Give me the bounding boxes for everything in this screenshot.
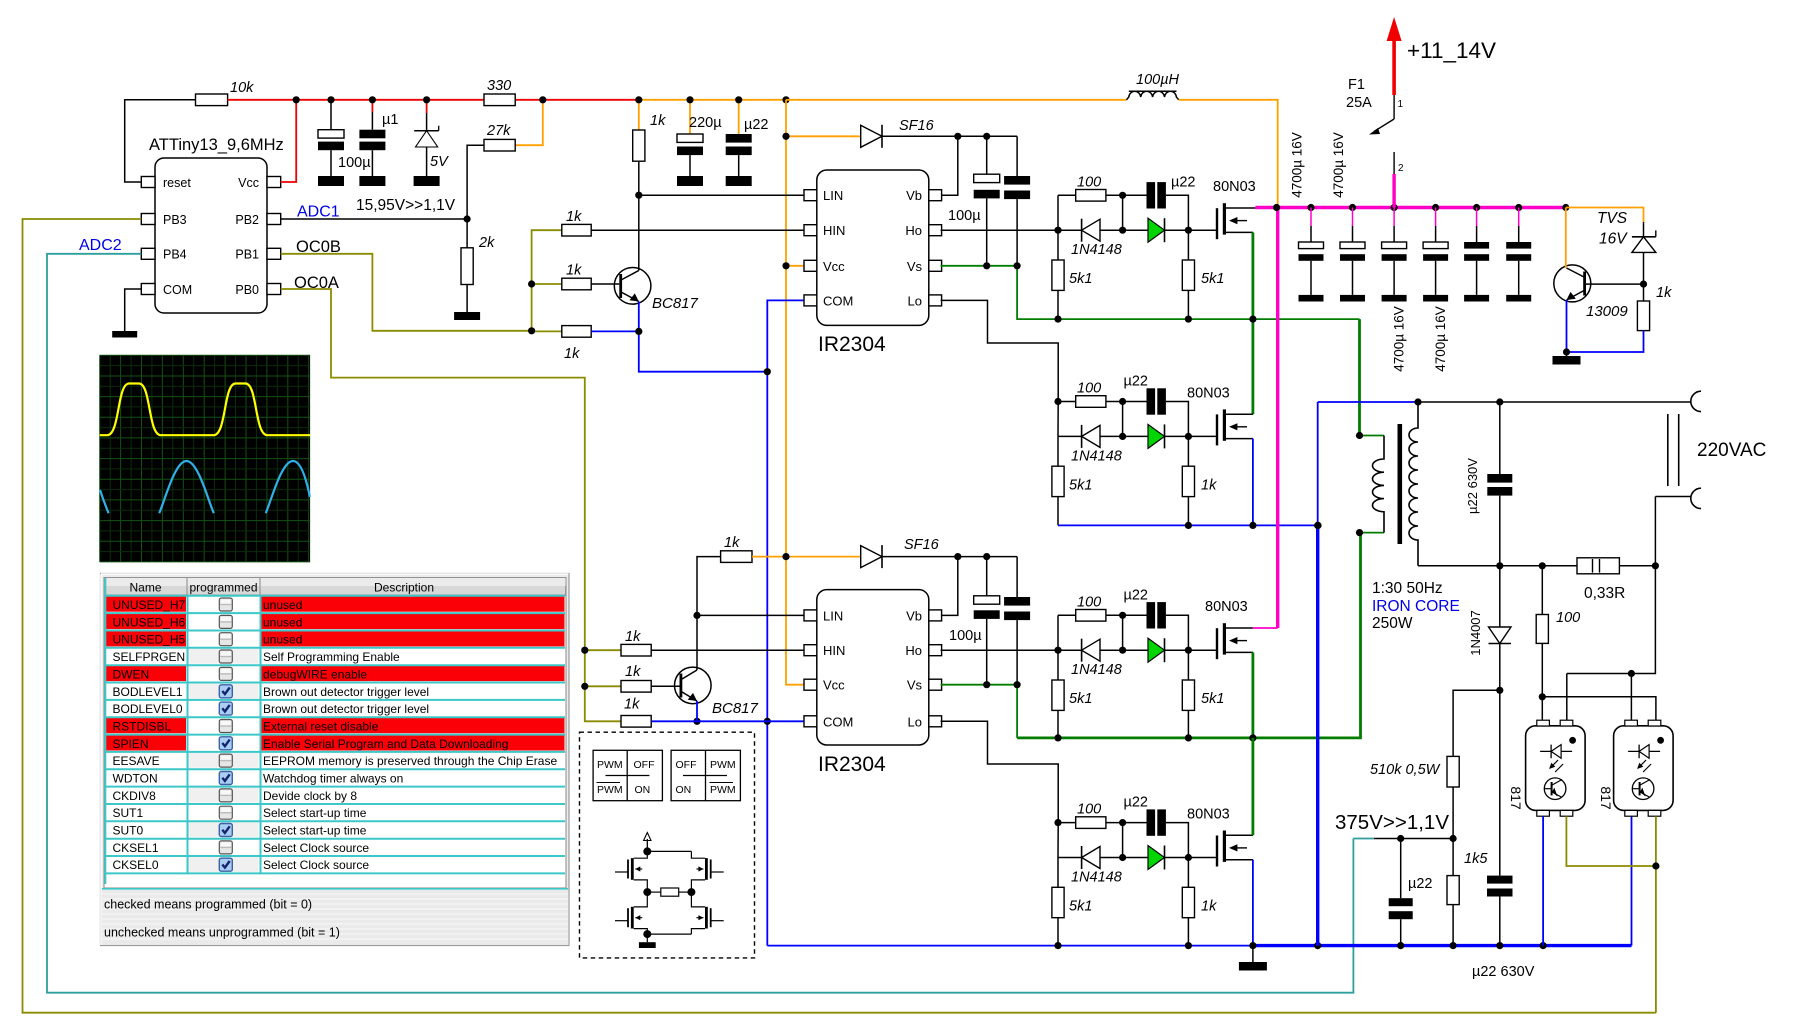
PWM truth table 1 [593,750,662,800]
junction dot SF16-2 anode [782,553,789,560]
junction dots blue A bus [1185,522,1322,529]
wire ADC2 node line [1353,835,1456,842]
svg-text:TVS: TVS [1597,210,1628,227]
diode D-1N4148 cluster 3 [1058,639,1123,679]
wire blue vertical to ground bus [1317,402,1319,946]
wire opto outputs (olive) [1566,816,1659,1013]
svg-text:250W: 250W [1372,615,1413,632]
svg-text:ON: ON [676,784,692,796]
svg-text:5k1: 5k1 [1069,899,1092,915]
junction dot cluster3 feed [1054,647,1061,654]
wire Q1 emitter to COM (blue) [639,302,768,372]
svg-text:817: 817 [1508,786,1524,810]
transformer T1 secondary coil [1409,402,1418,566]
svg-text:µ22: µ22 [1124,795,1148,811]
capacitor C-u22 gate cluster 1 [1147,174,1196,230]
svg-text:5k1: 5k1 [1201,691,1224,707]
capacitor C 220u [677,100,722,176]
svg-text:100: 100 [1077,381,1101,397]
wire pink vertical to M3 [1276,208,1279,629]
junction dots blue COM net [635,192,771,725]
resistor R 1k at Q3 [1567,284,1673,352]
svg-text:4700µ 16V: 4700µ 16V [1392,306,1407,372]
diode D-1N4148 cluster 1 [1058,219,1123,259]
svg-text:Vs: Vs [907,259,923,274]
wire Q1 collector to LIN1 [638,195,640,270]
svg-text:5V: 5V [430,154,449,170]
svg-text:Ho: Ho [905,223,922,238]
capacitor C-u22 gate cluster 4 [1124,795,1189,858]
svg-text:1k: 1k [1201,477,1217,493]
wire Vs1 drop to bridge A mid (green) [1017,266,1359,319]
svg-text:1k: 1k [564,346,580,362]
svg-text:Description: Description [374,581,434,595]
junction dot cluster1 feed [1054,227,1061,234]
svg-text:25A: 25A [1346,95,1372,111]
svg-text:CKSEL1: CKSEL1 [113,841,159,855]
PWM truth table 2 [671,750,740,800]
svg-text:1N4007: 1N4007 [1468,610,1483,656]
svg-text:16V: 16V [1599,231,1628,248]
inductor L 100uH [786,72,1180,100]
svg-text:100µ: 100µ [949,628,982,644]
svg-text:HIN: HIN [823,643,845,658]
resistor R 510k 0,5W [1370,756,1459,838]
resistor 5k1 left pulldown cluster 1 [1052,230,1092,319]
resistor R-100 gate cluster 4 [1058,802,1147,829]
svg-text:ATTiny13_9,6MHz: ATTiny13_9,6MHz [149,136,284,154]
junction dots green A [1054,316,1256,323]
svg-text:ADC1: ADC1 [297,204,340,221]
svg-text:1N4148: 1N4148 [1071,870,1122,886]
junction dots Vs2 [983,681,1021,688]
junction dot Q3 emitter [1563,348,1570,355]
wire bus to TVS (orange) [1566,208,1644,223]
svg-text:1:30 50Hz: 1:30 50Hz [1372,580,1443,597]
fuse table header row [105,578,566,595]
svg-text:HIN: HIN [823,223,845,238]
svg-text:5k1: 5k1 [1069,477,1092,493]
junction dots cluster 1 [1119,192,1192,234]
resistor 5k1 left pulldown cluster 3 [1052,650,1092,739]
IC U5 IR2304 (2) [804,590,942,776]
resistor R 10k [196,80,255,106]
wire M4 drain to B node (green) [1252,738,1255,835]
svg-text:13009: 13009 [1586,303,1628,320]
svg-text:100: 100 [1077,802,1101,818]
svg-text:UNUSED_H7: UNUSED_H7 [113,598,186,612]
svg-text:2k: 2k [478,235,495,251]
svg-text:COM: COM [823,714,853,729]
svg-text:817: 817 [1598,786,1614,810]
diode D-green cluster 3 [1123,638,1189,662]
wire Vcc1 stub orange [786,265,804,267]
resistor R-100 gate cluster 1 [1058,174,1147,201]
svg-text:5k1: 5k1 [1069,691,1092,707]
resistor R-100 gate cluster 2 [1058,381,1147,408]
resistor 5k1 right pulldown cluster 3 [1182,650,1224,739]
svg-text:100µ: 100µ [948,208,981,224]
ground for C u22 rail [726,176,752,186]
capacitor C 100u [318,100,371,176]
wire cluster 3 mid vertical [1122,615,1124,650]
svg-text:100: 100 [1556,610,1580,626]
svg-text:330: 330 [487,78,511,94]
diode D-green cluster 2 [1123,424,1189,448]
svg-text:µ1: µ1 [382,112,398,128]
svg-text:1k: 1k [566,209,582,225]
wire cluster 4 mid vertical [1122,823,1124,858]
H-bridge sketch ground [639,930,692,948]
svg-text:Select start-up time: Select start-up time [263,824,367,838]
svg-text:µ22: µ22 [744,117,768,133]
transformer T1 primary coil [1360,436,1385,533]
wire PB3 feedback (olive) left edge and bottom bus [23,219,1656,1013]
svg-text:IR2304: IR2304 [818,333,886,356]
resistor R-100 gate cluster 3 [1058,594,1147,621]
wire cluster4 feed vertical [1057,823,1059,858]
wire node to R 27k (orange) [515,100,543,145]
diode D-1N4148 cluster 2 [1058,425,1123,465]
wire +12V pink bus [1255,206,1565,209]
svg-text:unused: unused [263,633,302,647]
MOSFET M1 80N03 [1188,179,1255,239]
svg-text:EEPROM memory is preserved thr: EEPROM memory is preserved through the C… [263,754,557,768]
wire cluster 2 mid vertical [1122,402,1124,437]
wire COM pin to ground [125,289,142,331]
fuse table grid lines [105,578,565,884]
ground for zener 5V [414,176,440,186]
svg-text:1k: 1k [724,535,740,551]
svg-text:ADC2: ADC2 [79,237,122,254]
svg-text:PWM: PWM [710,784,736,796]
svg-text:1k: 1k [650,113,666,129]
svg-text:15,95V>>1,1V: 15,95V>>1,1V [356,197,456,214]
optocoupler U3 817 [1526,720,1586,816]
wire secondary bottom line [1418,565,1577,567]
wire TVS node to Q3 base [1591,283,1644,285]
svg-text:checked means programmed (bit: checked means programmed (bit = 0) [104,898,312,912]
wire ADC1 from PB2 [281,218,467,220]
svg-text:IRON CORE: IRON CORE [1372,598,1460,615]
svg-text:UNUSED_H6: UNUSED_H6 [113,615,186,629]
resistor R 1k HIN2 [621,629,804,656]
wire Q2 collector to LIN2 [696,615,698,670]
svg-text:External reset disable: External reset disable [263,720,379,734]
svg-text:PB3: PB3 [163,213,187,227]
svg-text:10k: 10k [230,80,254,96]
capacitor C u22 630V (2) [1472,690,1535,980]
junction dots ground bus [1054,942,1546,949]
svg-text:Vcc: Vcc [823,259,845,274]
svg-text:Lo: Lo [908,293,922,308]
capacitor C u22 rail [726,100,769,176]
svg-text:1k: 1k [625,664,641,680]
svg-text:100µH: 100µH [1136,72,1180,88]
diode D-green cluster 4 [1123,846,1189,870]
wire sense to opto LEDs return [1539,693,1656,720]
svg-text:Devide clock by 8: Devide clock by 8 [263,789,357,803]
svg-text:µ22: µ22 [1124,587,1148,603]
svg-text:Ho: Ho [905,643,922,658]
junction dots +12V bus [1273,204,1569,211]
svg-text:0,33R: 0,33R [1584,585,1625,602]
svg-text:80N03: 80N03 [1205,599,1248,615]
svg-text:375V>>1,1V: 375V>>1,1V [1335,811,1449,834]
diode D-green cluster 1 [1123,218,1189,242]
junction dots cluster 3 [1119,612,1192,654]
svg-text:µ22 630V: µ22 630V [1472,964,1535,980]
U1 pin stubs [141,177,280,295]
wire secondary top (blue+black) [1318,401,1691,403]
wire shunt right to opto LEDs [1567,566,1656,720]
resistor R 1k HIN1 [562,209,591,236]
svg-text:Vcc: Vcc [823,678,845,693]
MOSFET M2 80N03 [1187,385,1253,445]
svg-text:220µ: 220µ [689,115,722,131]
MOSFET M4 80N03 [1187,807,1253,867]
svg-text:unused: unused [263,615,302,629]
svg-text:debugWIRE enable: debugWIRE enable [263,667,367,681]
wire OC0A riser joints (olive) [581,647,621,690]
svg-text:+11_14V: +11_14V [1407,38,1496,63]
svg-text:unchecked means unprogrammed (: unchecked means unprogrammed (bit = 1) [104,925,340,939]
ground for Q3 [1553,352,1581,365]
wire Vs1 (green) [941,265,1018,267]
svg-text:80N03: 80N03 [1187,385,1230,401]
H-bridge sketch FET top-left [615,851,647,892]
resistor R 1k LIN2 pullup [697,535,786,615]
resistor R 1k LIN1 pullup [633,100,666,195]
svg-text:220VAC: 220VAC [1697,440,1766,461]
svg-text:4700µ 16V: 4700µ 16V [1433,306,1448,372]
svg-text:BC817: BC817 [712,700,759,717]
svg-text:LIN: LIN [823,608,843,623]
svg-text:5k1: 5k1 [1069,271,1092,287]
svg-text:80N03: 80N03 [1187,807,1230,823]
wire M4 source to ground (blue) [1252,860,1254,946]
wire COM vertical blue main [766,372,768,946]
svg-text:Select start-up time: Select start-up time [263,806,367,820]
svg-text:PWM: PWM [597,759,623,771]
zener diode 5V [414,100,449,176]
wire Vb1 stub [941,136,958,195]
svg-text:programmed: programmed [189,581,257,595]
capacitor C u1 [359,100,398,176]
capacitor C u22 630V snubber [1465,402,1512,566]
junction dot TVS node [1640,281,1647,288]
resistor R 1k pulldown OC0A [621,697,804,728]
wire Vs2 drop (green) [1016,685,1018,738]
wire PB4 ADC2 (teal) left edge and bottom [47,254,1353,993]
wire OC0B from PB1 (olive) [281,254,532,331]
fuse bits window frame [101,574,570,946]
capacitor C-u22 gate cluster 2 [1124,374,1189,437]
svg-text:PB2: PB2 [235,213,259,227]
mains plug 220VAC [1655,391,1766,566]
svg-text:OFF: OFF [634,759,655,771]
wire COM1 (blue) [767,300,804,371]
svg-text:1k: 1k [566,263,582,279]
svg-text:1: 1 [1398,99,1404,110]
svg-text:SF16: SF16 [899,118,935,134]
svg-text:Vb: Vb [906,608,922,623]
ground for U1 COM [112,331,137,338]
svg-text:1N4148: 1N4148 [1071,448,1122,464]
wire Q3 emitter to ground (blue) [1566,300,1568,352]
wire M3 drain jog (pink) [1253,627,1278,629]
wire Lo1 to cluster 2 [941,300,1059,401]
svg-text:PWM: PWM [597,784,623,796]
svg-text:µ22 630V: µ22 630V [1465,458,1480,514]
resistor 1k right pulldown cluster 2 [1182,436,1217,525]
transformer T1 core [1398,424,1403,544]
fuse F1 25A with +11_14V arrow [1346,17,1496,208]
svg-text:1N4148: 1N4148 [1071,662,1122,678]
wire Ho2 to cluster 3 [941,649,1058,651]
IC U2 IR2304 (1) [804,170,942,356]
transistor Q2 BC817 [675,667,759,717]
wire R27k to ADC1 node [464,145,485,222]
wire cluster 1 mid vertical [1122,195,1124,230]
junction dots green B bus [1054,734,1256,741]
svg-text:Enable Serial Program and Data: Enable Serial Program and Data Downloadi… [263,737,508,751]
wire M1 source to A node (green) [1252,232,1255,414]
svg-text:1k5: 1k5 [1464,851,1488,867]
wire +15V red bus [228,99,786,101]
svg-text:µ22: µ22 [1124,374,1148,390]
capacitor C u22 bootstrap 1 [1004,136,1030,265]
capacitor C u22 adc2 filter [1389,839,1433,946]
svg-text:reset: reset [163,176,191,190]
svg-text:100: 100 [1077,174,1101,190]
svg-text:µ22: µ22 [1171,174,1195,190]
svg-text:BC817: BC817 [652,295,699,312]
svg-text:RSTDISBL: RSTDISBL [113,720,172,734]
wire Q3 collector (orange) [1565,208,1567,269]
junction dots cluster 2 [1119,398,1192,440]
svg-text:1k: 1k [625,629,641,645]
svg-text:OFF: OFF [676,759,697,771]
svg-text:PWM: PWM [710,759,736,771]
svg-text:Vcc: Vcc [238,176,259,190]
ground for C 100u [318,176,344,186]
svg-text:4700µ 16V: 4700µ 16V [1331,132,1346,198]
svg-text:4700µ 16V: 4700µ 16V [1290,132,1305,198]
wire Vs2 (green) [941,684,1018,686]
svg-text:Select Clock source: Select Clock source [263,858,369,872]
svg-text:27k: 27k [486,123,511,139]
svg-text:SELFPRGEN: SELFPRGEN [113,650,186,664]
resistor 5k1 left pulldown cluster 2 [1052,436,1092,525]
resistor 1k right pulldown cluster 4 [1182,858,1217,947]
svg-text:µ22: µ22 [1408,876,1432,892]
svg-text:BODLEVEL1: BODLEVEL1 [113,685,183,699]
svg-text:100µ: 100µ [338,155,371,171]
ground for C 220u [677,176,703,186]
svg-text:UNUSED_H5: UNUSED_H5 [113,633,186,647]
svg-text:1k: 1k [1656,285,1672,301]
svg-text:EESAVE: EESAVE [113,754,160,768]
svg-text:Brown out detector trigger lev: Brown out detector trigger level [263,702,429,716]
transistor Q1 BC817 [614,268,698,313]
H-bridge sketch FET top-right [691,851,723,892]
wire cluster3 left vertical [1057,615,1059,650]
wire OC0A from PB0 (olive) [281,289,621,721]
svg-text:ON: ON [635,784,651,796]
resistor R 1k pulldown OC0B [532,326,639,362]
wire M2 source to gnd A (blue) [1252,439,1254,526]
svg-text:PB1: PB1 [235,248,259,262]
wire A node to primary (green) [1358,319,1361,435]
svg-text:Self Programming Enable: Self Programming Enable [263,650,400,664]
junction dots Vs1 [954,133,1021,270]
resistor R 1k5 [1447,839,1488,946]
H-bridge sketch in legend [644,833,651,852]
capacitor C 100u bootstrap 2 [949,557,1000,685]
wire LIN2 [697,614,804,616]
svg-text:Name: Name [129,581,161,595]
transistor Q3 13009 [1554,265,1629,320]
svg-text:PB0: PB0 [235,283,259,297]
wire HIN1 [591,229,804,231]
capacitor C 100u bootstrap 1 [948,136,1000,265]
wire main ground bus (blue) [767,816,1631,946]
svg-text:PB4: PB4 [163,248,187,262]
U1 pin names [163,176,259,297]
svg-text:80N03: 80N03 [1213,179,1256,195]
ground for R 2k [454,312,480,320]
resistor R 27k [484,123,515,151]
svg-text:1k: 1k [624,697,640,713]
wire Ho1 to cluster 1 [941,229,1058,231]
svg-text:F1: F1 [1348,77,1365,93]
svg-text:IR2304: IR2304 [818,753,886,776]
svg-text:SUT1: SUT1 [113,806,144,820]
svg-text:DWEN: DWEN [113,667,150,681]
labels 4700u 16V [1290,132,1449,372]
svg-text:COM: COM [823,293,853,308]
svg-text:CKDIV8: CKDIV8 [113,789,157,803]
svg-text:Select Clock source: Select Clock source [263,841,369,855]
wire Q2 emitter to COM2 (blue) [696,701,698,721]
resistor 5k1 right pulldown cluster 1 [1182,230,1224,319]
wire Vcc pin to bus (red) [281,100,297,182]
svg-text:CKSEL0: CKSEL0 [113,858,159,872]
wire bridge A low bus (blue) [1058,524,1318,526]
capacitor C u22 bootstrap 2 [1004,557,1030,685]
wire cluster2 feed vertical [1057,402,1059,437]
svg-text:COM: COM [163,283,192,297]
wire Vcc orange vertical [786,100,804,685]
wire M3 source to B node (green) [1252,652,1255,738]
H-bridge sketch top rail [643,847,691,855]
wire reset to R 10k [125,100,196,182]
wire cluster1 left vertical [1057,195,1059,230]
svg-text:510k 0,5W: 510k 0,5W [1370,762,1441,778]
junction dot cluster4 feed [1054,819,1061,826]
junction dots secondary top line [1314,398,1503,529]
resistor R 100 sense [1536,566,1580,697]
svg-text:LIN: LIN [823,188,843,203]
TVS zener 16V [1597,210,1656,284]
wire Vb2 stub [941,557,958,616]
diode D 1N4007 [1468,566,1511,691]
svg-text:unused: unused [263,598,302,612]
junction dots cluster 4 [1119,819,1192,861]
label transformer ratings [1372,580,1460,632]
capacitor bank C 4700u 16V x4 and u-caps [1299,208,1324,302]
